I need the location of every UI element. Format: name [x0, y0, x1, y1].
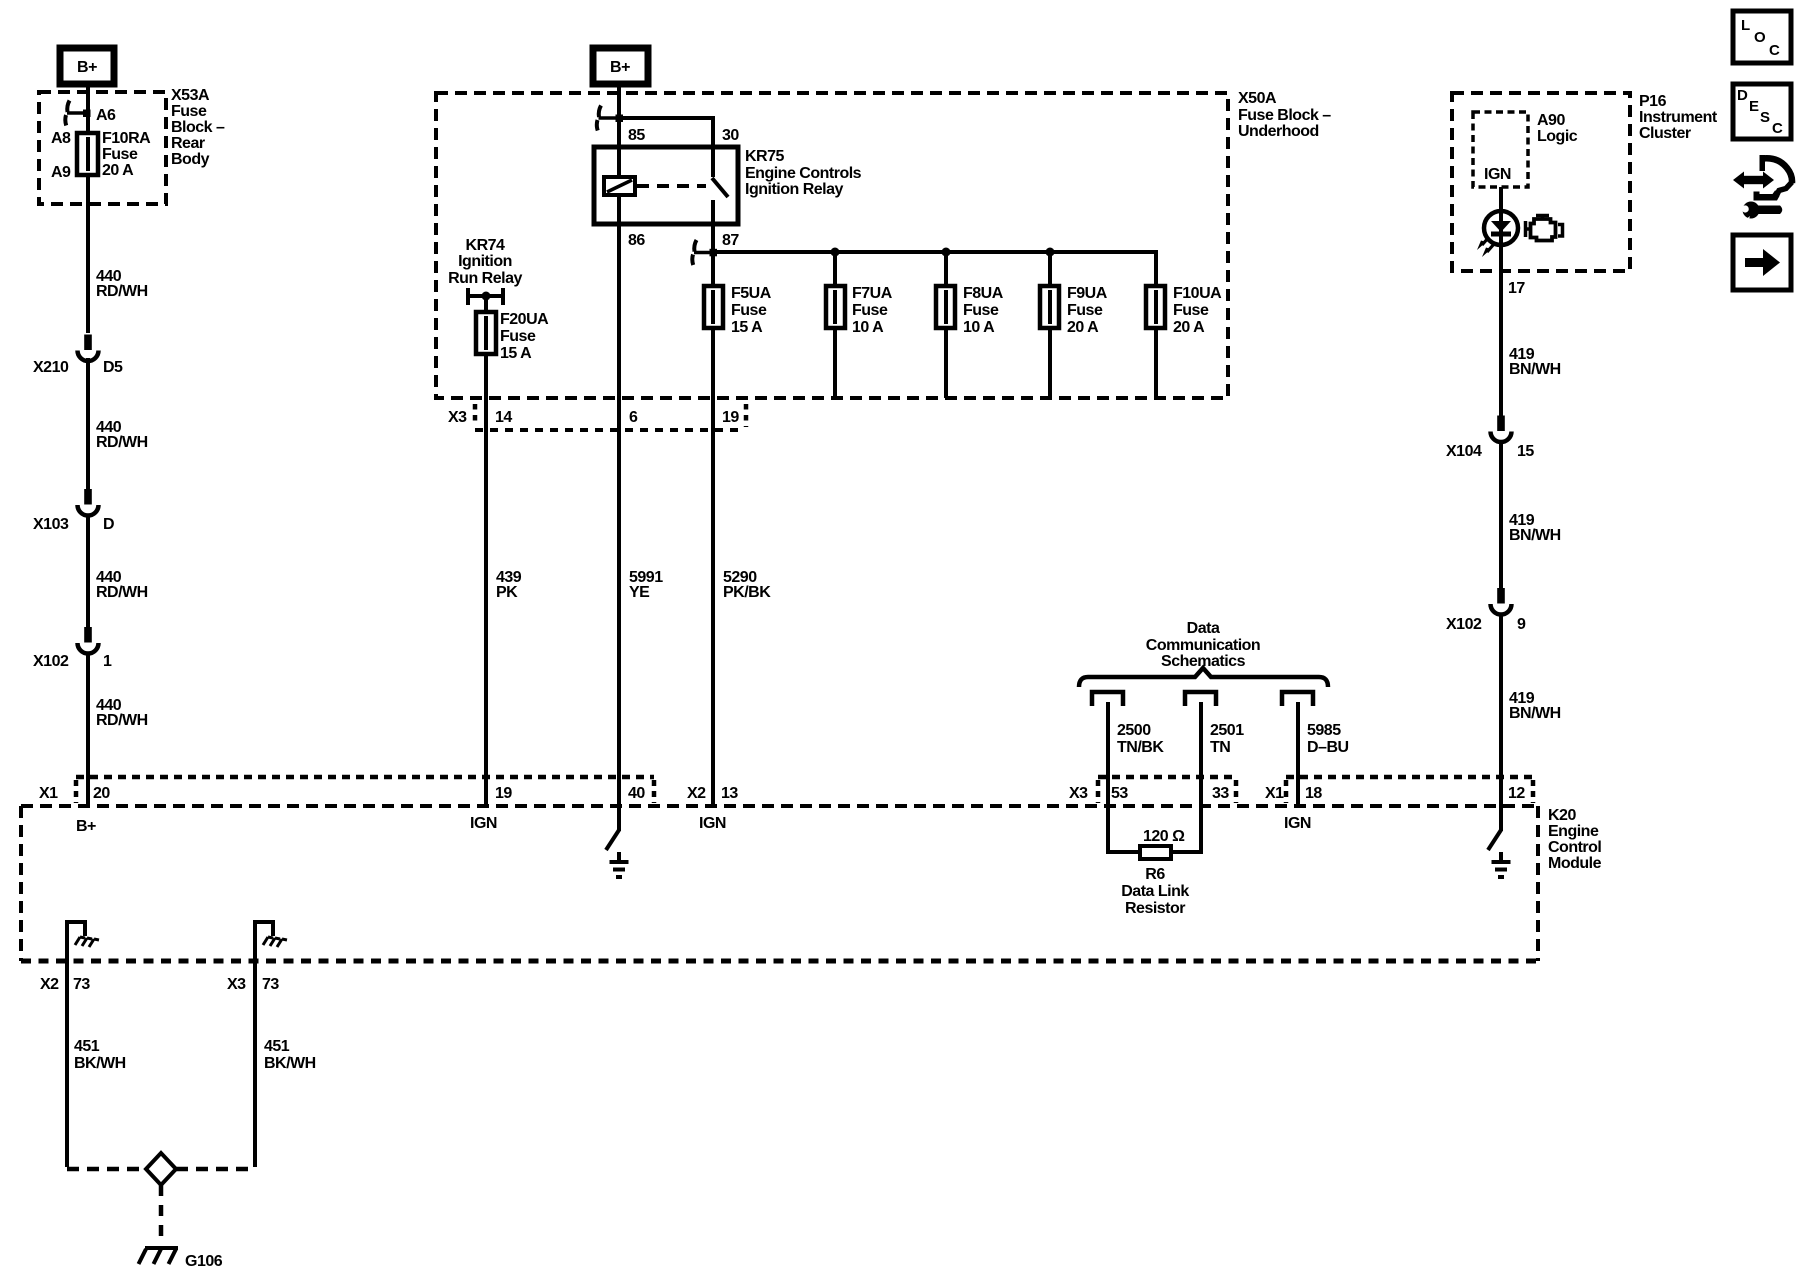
chassis ground hatch (X2-73) — [75, 937, 99, 947]
svg-text:73: 73 — [262, 976, 279, 993]
svg-text:Fuse: Fuse — [1173, 302, 1209, 319]
label 5290 PK/BK — [723, 569, 771, 601]
label 2500 TN/BK — [1117, 722, 1164, 756]
wire 451 BK/WH (left) — [65, 961, 69, 1167]
svg-text:F20UA: F20UA — [500, 311, 549, 328]
svg-text:F9UA: F9UA — [1067, 285, 1108, 302]
in-line connector X102 pin 9 — [1491, 588, 1512, 615]
icon arrow box — [1733, 235, 1791, 290]
label 419 BN/WH — [1509, 346, 1561, 378]
label 440 RD/WH — [96, 419, 148, 451]
wire 440 RD/WH segment 3 — [86, 515, 90, 627]
label KR75 Engine Controls Ignition Relay — [745, 148, 862, 198]
wire LED to P16 edge / pin 17 — [1499, 271, 1503, 416]
wire F7UA to box edge — [833, 328, 837, 398]
svg-text:X103: X103 — [33, 516, 69, 533]
wire 440 RD/WH segment 1 — [86, 175, 90, 333]
wire pin 53 to resistor — [1108, 806, 1140, 852]
svg-text:BN/WH: BN/WH — [1509, 361, 1561, 378]
junction dot F9UA — [1046, 248, 1055, 257]
wire KR74 to fuse F20UA — [484, 296, 488, 315]
svg-text:X1: X1 — [1265, 785, 1284, 802]
svg-text:Fuse: Fuse — [852, 302, 888, 319]
terminal hook at relay feed node — [597, 106, 623, 131]
svg-text:13: 13 — [721, 785, 738, 802]
relay coil (pin 85-86) — [604, 147, 635, 224]
wire 439 PK to ECM pin 19 — [484, 354, 488, 806]
label 440 RD/WH — [96, 569, 148, 601]
wire F5UA down (5290) — [711, 328, 715, 806]
label 2501 TN — [1210, 722, 1244, 756]
ground at pin 40 — [610, 852, 629, 877]
svg-text:17: 17 — [1508, 280, 1525, 297]
svg-text:PK/BK: PK/BK — [723, 584, 771, 601]
svg-text:D: D — [103, 516, 114, 533]
terminal hook at pin 87 node — [692, 240, 717, 265]
wire 5985 D-BU to ECM pin 18 — [1296, 702, 1300, 806]
wire 440 RD/WH segment 2 — [86, 358, 90, 490]
svg-text:87: 87 — [722, 232, 739, 249]
svg-text:15 A: 15 A — [500, 345, 532, 362]
svg-text:Fuse: Fuse — [102, 146, 138, 163]
svg-text:A8: A8 — [51, 130, 71, 147]
svg-text:15 A: 15 A — [731, 319, 763, 336]
KR74 relay output terminal symbol — [468, 288, 503, 305]
svg-text:O: O — [1754, 29, 1766, 46]
svg-text:D–BU: D–BU — [1307, 739, 1349, 756]
LED emission arrows — [1477, 237, 1494, 257]
svg-text:RD/WH: RD/WH — [96, 283, 148, 300]
junction dot F8UA — [942, 248, 951, 257]
svg-text:15: 15 — [1517, 443, 1534, 460]
svg-text:85: 85 — [628, 127, 645, 144]
separator dots left of 18 — [1284, 780, 1289, 803]
separator dots left of 53 — [1096, 780, 1101, 803]
label 451 BK/WH (left) — [74, 1038, 126, 1072]
svg-text:Logic: Logic — [1537, 128, 1578, 145]
svg-text:K20: K20 — [1548, 807, 1576, 824]
svg-text:2501: 2501 — [1210, 722, 1244, 739]
in-line connector X103 pin D — [78, 489, 99, 516]
wire node down to pin 85 — [617, 118, 621, 147]
svg-text:Control: Control — [1548, 839, 1601, 856]
in-line connector X102 pin 1 — [78, 627, 99, 654]
junction dot F7UA — [831, 248, 840, 257]
svg-text:120 Ω: 120 Ω — [1143, 828, 1185, 845]
svg-text:RD/WH: RD/WH — [96, 712, 148, 729]
svg-text:Instrument: Instrument — [1639, 109, 1718, 126]
svg-text:Fuse: Fuse — [963, 302, 999, 319]
label F8UA Fuse 10 A — [963, 285, 1004, 336]
svg-text:Resistor: Resistor — [1125, 900, 1185, 917]
svg-text:TN: TN — [1210, 739, 1230, 756]
svg-text:R6: R6 — [1145, 866, 1165, 883]
svg-text:B+: B+ — [76, 818, 96, 835]
wire 419 segment 3 to ECM pin 12 — [1499, 614, 1503, 806]
resistor R6 120 ohm — [1140, 846, 1171, 859]
indicator LED (MIL lamp) — [1484, 211, 1518, 271]
svg-text:Engine Controls: Engine Controls — [745, 165, 862, 182]
separator dots right of 33 — [1234, 780, 1239, 803]
separator dots right of 40 — [652, 780, 657, 803]
ground jog wire X2-73 (inside ECM) — [67, 922, 85, 961]
svg-text:A6: A6 — [96, 107, 116, 124]
svg-text:Fuse Block –: Fuse Block – — [1238, 107, 1331, 124]
svg-text:PK: PK — [496, 584, 518, 601]
svg-text:40: 40 — [628, 785, 645, 802]
wire 2501 TN to ECM pin 33 — [1199, 702, 1203, 806]
svg-text:F5UA: F5UA — [731, 285, 772, 302]
svg-text:X50A: X50A — [1238, 90, 1277, 107]
label 419 BN/WH — [1509, 512, 1561, 544]
label P16 Instrument Cluster — [1639, 93, 1718, 142]
svg-text:Data Link: Data Link — [1121, 883, 1189, 900]
power symbol B+ (left) — [60, 48, 114, 84]
svg-text:X102: X102 — [1446, 616, 1482, 633]
svg-text:P16: P16 — [1639, 93, 1667, 110]
svg-text:D: D — [1737, 87, 1748, 104]
fuse block X53A dashed box — [39, 92, 166, 204]
svg-text:5985: 5985 — [1307, 722, 1341, 739]
svg-text:TN/BK: TN/BK — [1117, 739, 1164, 756]
svg-text:X210: X210 — [33, 359, 69, 376]
svg-text:Fuse: Fuse — [1067, 302, 1103, 319]
wire 419 segment 2 — [1499, 441, 1503, 589]
svg-text:20: 20 — [93, 785, 110, 802]
svg-text:F7UA: F7UA — [852, 285, 893, 302]
connector X3 strip under X50A (separators and bottom dashes) — [475, 404, 746, 430]
svg-text:Block –: Block – — [171, 119, 225, 136]
wire 2500 TN/BK to ECM pin 53 — [1106, 702, 1110, 806]
wire A6 to fuse — [86, 113, 90, 133]
svg-text:30: 30 — [722, 127, 739, 144]
svg-text:E: E — [1749, 98, 1759, 115]
wire bus to F8UA — [944, 252, 948, 286]
label X50A Fuse Block - Underhood — [1238, 90, 1331, 140]
switch at pin 12 — [1488, 806, 1501, 850]
svg-text:9: 9 — [1517, 616, 1526, 633]
svg-text:RD/WH: RD/WH — [96, 434, 148, 451]
fuse F5UA — [704, 286, 723, 328]
ECM connector strip dotted line X1 — [76, 775, 654, 780]
wire pin 86 (5991 YE) down to ECM pin 40 — [617, 224, 621, 806]
ground at pin 12 — [1492, 852, 1511, 877]
svg-text:Run Relay: Run Relay — [448, 270, 522, 287]
svg-text:IGN: IGN — [699, 815, 726, 832]
svg-text:KR75: KR75 — [745, 148, 785, 165]
svg-text:IGN: IGN — [470, 815, 497, 832]
svg-text:Body: Body — [171, 151, 210, 168]
svg-text:X1: X1 — [39, 785, 58, 802]
label F9UA Fuse 20 A — [1067, 285, 1108, 336]
label 5991 YE — [629, 569, 663, 601]
label F5UA Fuse 15 A — [731, 285, 772, 336]
label 5985 D-BU — [1307, 722, 1349, 756]
svg-text:Cluster: Cluster — [1639, 125, 1691, 142]
svg-text:20 A: 20 A — [1173, 319, 1205, 336]
svg-text:G106: G106 — [185, 1253, 223, 1270]
svg-text:B+: B+ — [77, 59, 97, 76]
svg-text:Fuse: Fuse — [731, 302, 767, 319]
label A90 Logic — [1537, 112, 1578, 145]
off-page bracket wire 5985 — [1282, 692, 1313, 706]
svg-text:X53A: X53A — [171, 87, 210, 104]
relay coil-switch dashed link — [637, 184, 706, 188]
fuse F20UA — [476, 312, 496, 354]
relay switch (pin 30-87) — [712, 147, 728, 224]
svg-text:Ignition: Ignition — [458, 253, 512, 270]
fuse F10UA — [1146, 286, 1165, 328]
ECM connector strip dotted line X1b — [1286, 775, 1533, 780]
svg-text:X3: X3 — [1069, 785, 1088, 802]
svg-text:20 A: 20 A — [1067, 319, 1099, 336]
wire IGN to LED — [1499, 187, 1503, 213]
dashed drop to G106 — [159, 1185, 164, 1243]
svg-text:D5: D5 — [103, 359, 123, 376]
label 439 PK — [496, 569, 522, 601]
svg-text:Fuse: Fuse — [500, 328, 536, 345]
svg-text:Ignition Relay: Ignition Relay — [745, 181, 844, 198]
wire F8UA to box edge — [944, 328, 948, 398]
svg-text:Rear: Rear — [171, 135, 205, 152]
svg-text:BN/WH: BN/WH — [1509, 705, 1561, 722]
separator dots X1 — [74, 780, 79, 803]
svg-text:RD/WH: RD/WH — [96, 584, 148, 601]
separator dots right of 12 — [1531, 780, 1536, 803]
wire node to pin 30 (top link) — [619, 118, 713, 147]
ECM K20 dashed outline bottom — [21, 959, 1538, 964]
svg-text:KR74: KR74 — [466, 237, 506, 254]
label F20UA Fuse 15 A — [500, 311, 549, 362]
svg-text:A9: A9 — [51, 164, 71, 181]
terminal A6 (hook connector) — [65, 101, 90, 126]
svg-text:BN/WH: BN/WH — [1509, 527, 1561, 544]
svg-text:Fuse: Fuse — [171, 103, 207, 120]
svg-text:BK/WH: BK/WH — [74, 1055, 126, 1072]
splice diamond — [146, 1153, 176, 1185]
chassis ground hatch (X3-73) — [263, 937, 287, 947]
icon DESC box — [1733, 84, 1791, 139]
label X53A Fuse Block - Rear Body — [171, 87, 225, 168]
wire pin 33 to resistor — [1171, 806, 1201, 852]
svg-text:18: 18 — [1305, 785, 1322, 802]
instrument cluster P16 dashed box — [1452, 93, 1630, 271]
wire pin 87 to fuse bus — [711, 224, 715, 286]
svg-text:F8UA: F8UA — [963, 285, 1004, 302]
label Data Communication Schematics — [1146, 620, 1260, 670]
label 451 BK/WH (right) — [264, 1038, 316, 1072]
brace over data communication wires — [1079, 668, 1328, 687]
wire bus to F7UA — [833, 252, 837, 286]
icon diagnostic arrows and wrench — [1733, 155, 1792, 223]
svg-text:1: 1 — [103, 653, 112, 670]
logic module A90 dashed box — [1473, 112, 1528, 187]
in-line connector X104 pin 15 — [1491, 416, 1512, 443]
svg-text:2500: 2500 — [1117, 722, 1151, 739]
svg-text:F10UA: F10UA — [1173, 285, 1222, 302]
in-line connector X210 pin D5 — [78, 335, 99, 362]
svg-text:A90: A90 — [1537, 112, 1565, 129]
svg-text:Engine: Engine — [1548, 823, 1599, 840]
svg-text:L: L — [1741, 17, 1750, 34]
svg-text:6: 6 — [629, 409, 638, 426]
svg-text:86: 86 — [628, 232, 645, 249]
off-page bracket wire 2500 — [1092, 692, 1123, 706]
ECM connector strip dotted line X3 — [1098, 775, 1236, 780]
wire bus to F9UA — [1048, 252, 1052, 286]
label F7UA Fuse 10 A — [852, 285, 893, 336]
svg-text:20 A: 20 A — [102, 162, 134, 179]
svg-text:Data: Data — [1187, 620, 1220, 637]
wire B+ to X53A box — [86, 84, 90, 113]
wire 440 RD/WH segment 4 to ECM pin 20 — [86, 652, 90, 806]
dashed link splice to right wire — [176, 1167, 255, 1172]
svg-text:C: C — [1769, 42, 1780, 59]
icon LOC box — [1733, 11, 1791, 63]
off-page bracket wire 2501 — [1185, 692, 1216, 706]
label 419 BN/WH — [1509, 690, 1561, 722]
relay KR75 box — [594, 147, 738, 224]
label K20 Engine Control Module — [1548, 807, 1602, 872]
svg-text:10 A: 10 A — [852, 319, 884, 336]
svg-text:BK/WH: BK/WH — [264, 1055, 316, 1072]
svg-text:IGN: IGN — [1284, 815, 1311, 832]
svg-text:14: 14 — [495, 409, 512, 426]
svg-text:Communication: Communication — [1146, 637, 1260, 654]
label 440 RD/WH — [96, 697, 148, 729]
svg-text:C: C — [1772, 120, 1783, 137]
label F10RA Fuse 20 A — [102, 130, 151, 179]
label 440 RD/WH — [96, 268, 148, 300]
power symbol B+ (middle) — [593, 48, 648, 84]
label R6 Data Link Resistor — [1121, 866, 1189, 917]
dashed link left wire to splice — [67, 1167, 146, 1172]
svg-text:19: 19 — [722, 409, 739, 426]
label F10UA Fuse 20 A — [1173, 285, 1222, 336]
KR74 Ignition Run Relay label — [448, 237, 522, 287]
svg-text:X2: X2 — [40, 976, 59, 993]
switch at pin 40 — [606, 806, 619, 850]
wire F9UA to box edge — [1048, 328, 1052, 398]
fuse F9UA — [1040, 286, 1059, 328]
svg-text:B+: B+ — [610, 59, 630, 76]
ECM K20 dashed outline left — [19, 806, 23, 961]
fuse block X50A dashed box — [436, 93, 1228, 398]
svg-text:S: S — [1760, 109, 1770, 126]
svg-text:451: 451 — [264, 1038, 290, 1055]
svg-text:X104: X104 — [1446, 443, 1482, 460]
wire B+ to X50A box — [617, 84, 621, 118]
svg-text:10 A: 10 A — [963, 319, 995, 336]
fuse F8UA — [936, 286, 955, 328]
svg-text:451: 451 — [74, 1038, 100, 1055]
fuse F10RA — [77, 133, 98, 175]
svg-text:X102: X102 — [33, 653, 69, 670]
svg-text:12: 12 — [1508, 785, 1525, 802]
ground jog wire X3-73 (inside ECM) — [255, 922, 273, 961]
fuse bus from pin 87 — [713, 252, 1156, 286]
svg-text:33: 33 — [1212, 785, 1229, 802]
ground G106 symbol — [139, 1248, 179, 1264]
svg-text:Underhood: Underhood — [1238, 123, 1319, 140]
svg-text:X3: X3 — [448, 409, 467, 426]
fuse F7UA — [826, 286, 845, 328]
wire F10UA to box edge — [1154, 328, 1158, 398]
wire 451 BK/WH (right) — [253, 961, 257, 1167]
ECM K20 dashed outline top — [21, 804, 1538, 808]
svg-text:YE: YE — [629, 584, 650, 601]
svg-text:Module: Module — [1548, 855, 1602, 872]
svg-text:IGN: IGN — [1484, 166, 1511, 183]
svg-text:19: 19 — [495, 785, 512, 802]
engine icon (check engine) — [1526, 216, 1563, 241]
ECM K20 dashed outline right — [1536, 806, 1540, 961]
svg-text:53: 53 — [1111, 785, 1128, 802]
svg-text:X2: X2 — [687, 785, 706, 802]
svg-text:F10RA: F10RA — [102, 130, 151, 147]
svg-text:73: 73 — [73, 976, 90, 993]
svg-text:X3: X3 — [227, 976, 246, 993]
